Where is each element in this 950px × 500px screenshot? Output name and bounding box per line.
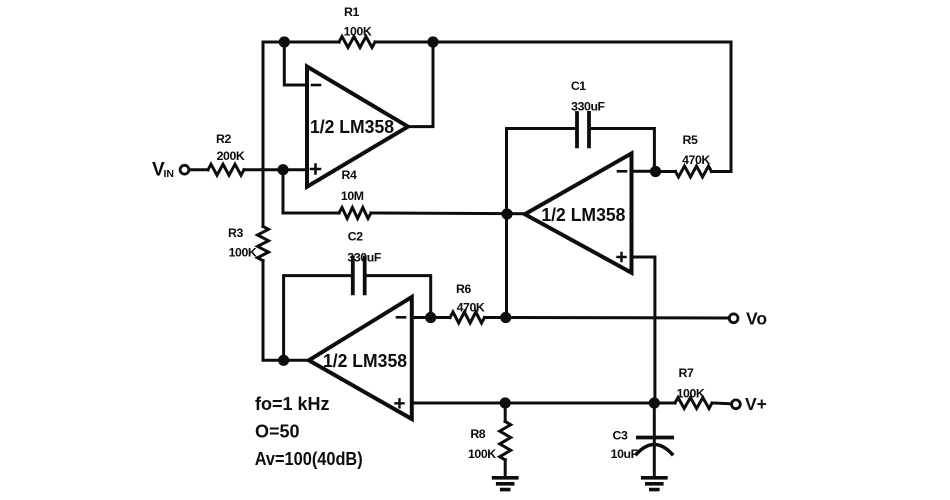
svg-text:1/2 LM358: 1/2 LM358 (541, 205, 625, 225)
wire R4 to U2 output apex (371, 212, 525, 216)
wire R3 bottom to op-amp U3 output apex (263, 261, 309, 361)
op-amp U1 (307, 67, 408, 187)
U3 pin - (397, 316, 405, 319)
svg-text:R8: R8 (470, 427, 485, 441)
capacitor C2 (353, 258, 365, 294)
wire VIN terminal to R2 (190, 168, 209, 171)
svg-text:330uF: 330uF (347, 251, 381, 265)
svg-text:100K: 100K (677, 387, 705, 401)
wire C3 bottom to ground (653, 440, 656, 477)
wire U1 output to top net (408, 42, 433, 127)
resistor R8 (500, 422, 511, 460)
svg-text:fo=1 kHz: fo=1 kHz (255, 394, 330, 414)
U1 pin + (311, 165, 320, 174)
svg-text:C2: C2 (348, 229, 363, 243)
wire R5 to U2 inverting node (656, 170, 676, 173)
resistor R4 (339, 208, 371, 219)
svg-text:R2: R2 (216, 132, 231, 146)
wire U3 inverting input (412, 316, 431, 319)
wire C1 right plate down to U2 inverting node (589, 129, 654, 172)
junction node U3 minus / C2 right (425, 312, 436, 323)
svg-text:R6: R6 (456, 282, 471, 296)
junction node U2 minus / R5 / C1 (650, 166, 661, 177)
svg-text:Av=100(40dB): Av=100(40dB) (255, 449, 363, 469)
svg-text:Vo: Vo (746, 308, 767, 328)
resistor R1 (339, 37, 375, 48)
terminal V+ (732, 400, 741, 409)
resistor R3 (258, 227, 269, 261)
resistor R6 (450, 312, 485, 323)
wire node A down to R4 (283, 170, 339, 213)
wire U2 inverting input (632, 170, 656, 173)
wire C3 top (653, 403, 656, 435)
wire top net left segment (263, 41, 339, 44)
wire C2 left plate down to U3 output node (284, 276, 353, 361)
svg-text:R3: R3 (228, 226, 243, 240)
svg-text:330uF: 330uF (571, 100, 605, 114)
U2 pin - (618, 170, 626, 173)
U1 pin - (312, 84, 320, 87)
resistor R2 (208, 164, 244, 175)
svg-text:IN: IN (164, 168, 175, 180)
junction node R6 / Vo branch (500, 312, 511, 323)
junction node U2 apex / mid vertical (501, 208, 512, 219)
svg-text:R1: R1 (344, 5, 359, 19)
svg-text:R7: R7 (679, 366, 694, 380)
wire C2 right branch (365, 276, 431, 318)
wire to C1 left plate (507, 127, 578, 130)
svg-text:470K: 470K (682, 153, 710, 167)
svg-text:R5: R5 (683, 133, 698, 147)
svg-text:10M: 10M (341, 189, 364, 203)
svg-text:O=50: O=50 (255, 422, 300, 442)
svg-text:C1: C1 (571, 79, 586, 93)
svg-text:C3: C3 (613, 428, 628, 442)
svg-text:100K: 100K (229, 246, 257, 260)
op-amp U3 (mirrored) (309, 297, 412, 419)
wire U3 non-inverting input to R7 (412, 402, 675, 405)
svg-text:R4: R4 (342, 168, 357, 182)
capacitor C1 (577, 113, 589, 146)
junction node C3 / R7 (649, 397, 660, 408)
wire R6 to Vo terminal (485, 316, 730, 320)
svg-text:470K: 470K (457, 301, 485, 315)
wire U2 non-inverting input down to V+ net (632, 257, 655, 403)
wire left vertical branch (262, 42, 265, 227)
junction node U1 output to top wire (427, 36, 438, 47)
U3 pin + (396, 399, 404, 407)
resistor R5 (676, 166, 712, 177)
junction node R8 top (500, 397, 511, 408)
capacitor C3 (638, 436, 672, 440)
terminal Vo (729, 314, 738, 323)
svg-text:200K: 200K (217, 149, 245, 163)
svg-text:10uF: 10uF (611, 447, 639, 461)
junction node A (VIN / R4) (277, 164, 288, 175)
wire mid vertical node branch (505, 129, 508, 318)
resistor R7 (675, 398, 712, 409)
svg-text:V+: V+ (745, 394, 767, 414)
junction node top-left (279, 36, 290, 47)
svg-text:100K: 100K (468, 447, 496, 461)
svg-text:1/2 LM358: 1/2 LM358 (323, 351, 407, 371)
ground below R8 (494, 478, 517, 490)
wire junction to R6 (431, 316, 450, 319)
op-amp U2 (mirrored) (525, 153, 632, 272)
terminal VIN (180, 165, 189, 174)
U2 pin + (618, 253, 626, 261)
wire R2 to U1 non-inverting input (244, 168, 307, 171)
wire R8 bottom to ground (504, 460, 507, 477)
wire top net right segment down to R5 (375, 42, 731, 172)
junction node U3 output / C2 (278, 355, 289, 366)
svg-text:100K: 100K (344, 25, 372, 39)
wire R7 to V+ terminal (713, 402, 732, 406)
wire U1 inverting input feed (284, 42, 307, 85)
wire R8 top (504, 403, 507, 422)
svg-text:1/2 LM358: 1/2 LM358 (310, 117, 394, 137)
ground below C3 (643, 478, 666, 490)
